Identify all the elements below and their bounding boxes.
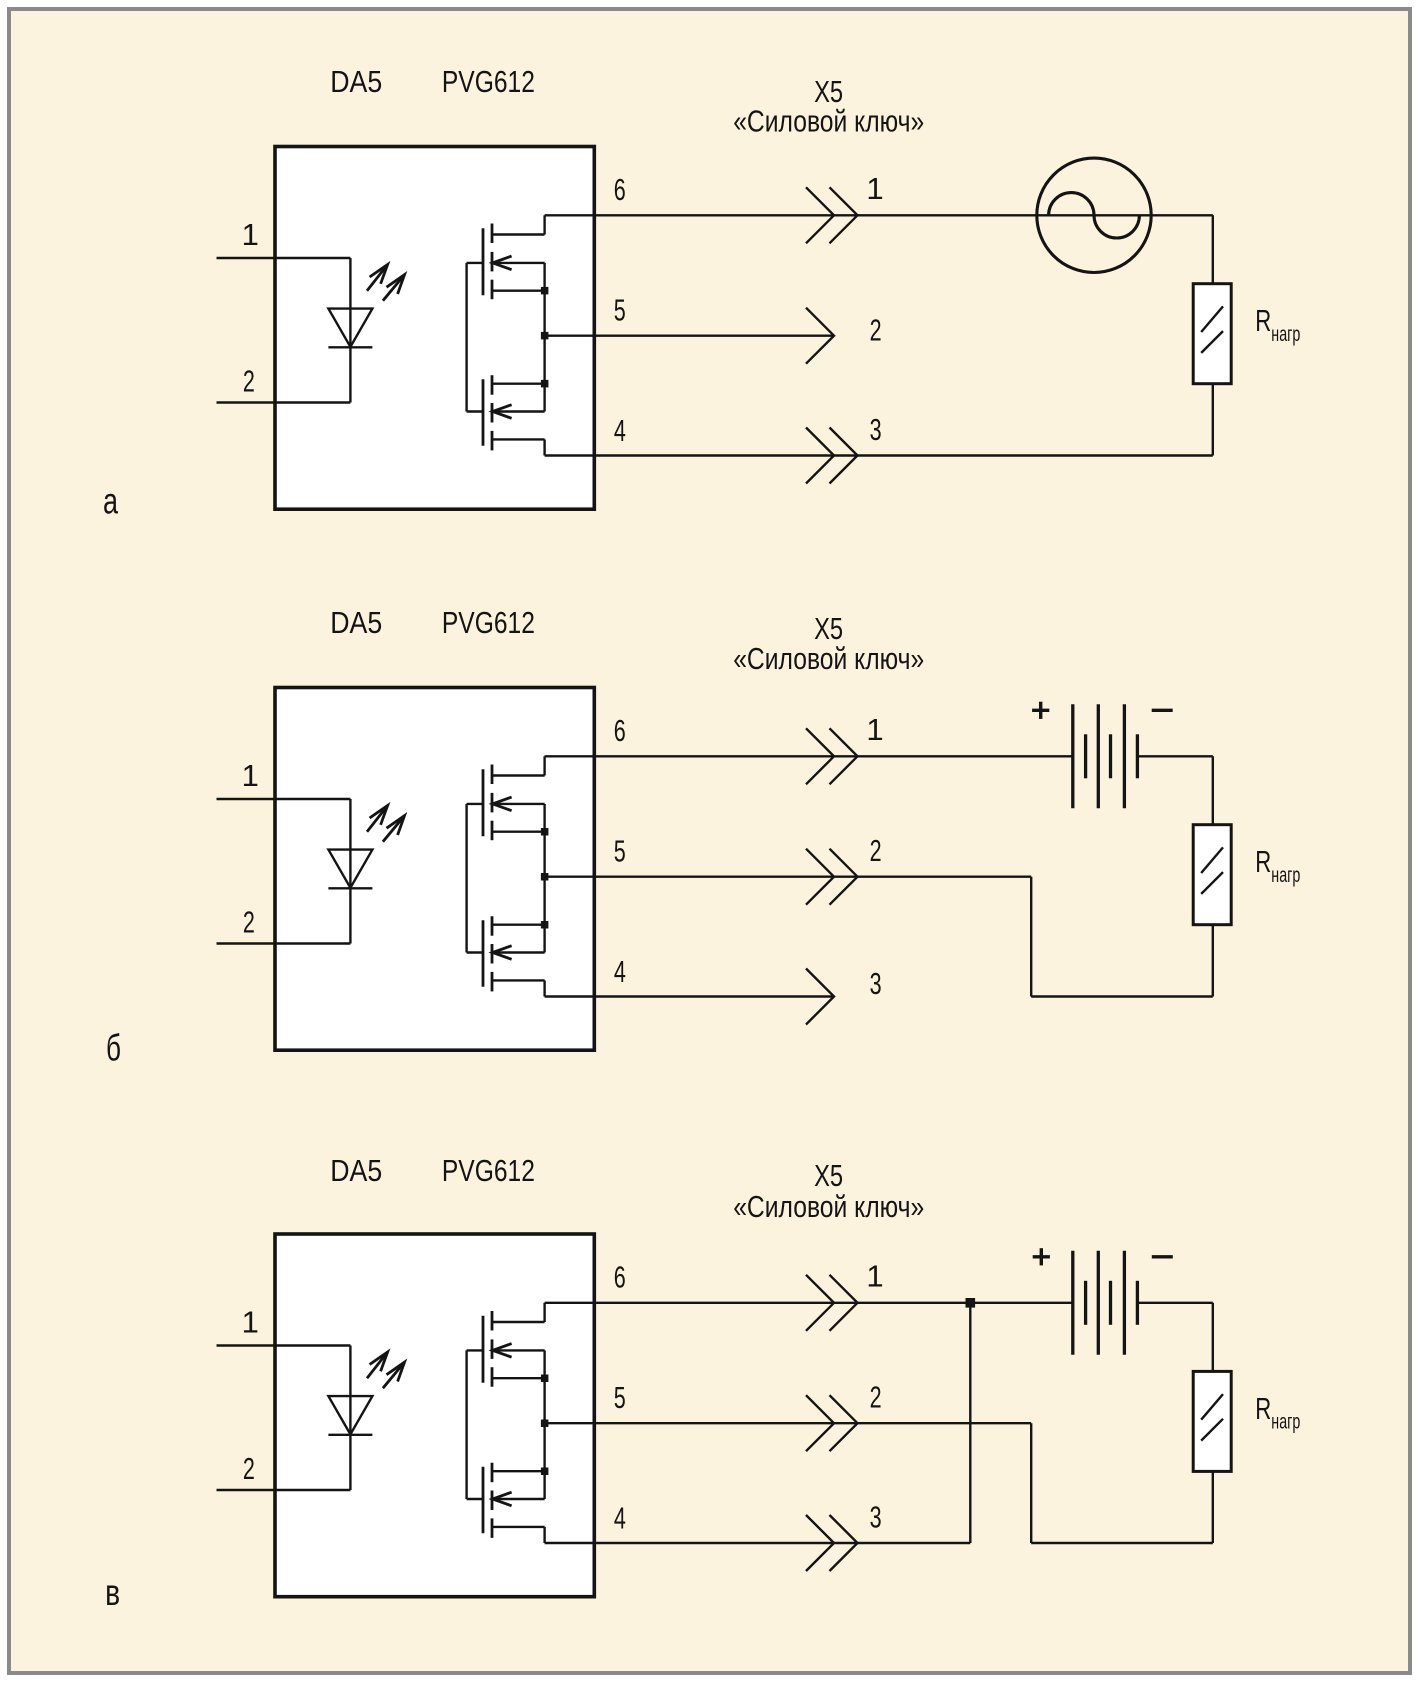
svg-text:«Силовой ключ»: «Силовой ключ» (733, 641, 924, 676)
svg-text:1: 1 (242, 1305, 259, 1340)
svg-text:PVG612: PVG612 (442, 1153, 535, 1188)
svg-text:6: 6 (614, 713, 626, 748)
svg-text:2: 2 (243, 905, 255, 940)
svg-text:1: 1 (242, 217, 259, 252)
svg-text:R: R (1255, 1391, 1271, 1426)
svg-text:X5: X5 (814, 1158, 843, 1193)
svg-text:R: R (1255, 844, 1271, 879)
svg-text:«Силовой ключ»: «Силовой ключ» (733, 104, 924, 139)
svg-text:2: 2 (870, 313, 882, 348)
svg-text:нагр: нагр (1271, 1410, 1300, 1434)
svg-text:6: 6 (614, 1260, 626, 1295)
svg-text:1: 1 (866, 171, 883, 206)
svg-text:PVG612: PVG612 (442, 64, 535, 99)
svg-text:3: 3 (870, 412, 882, 447)
svg-text:DA5: DA5 (330, 605, 382, 640)
svg-text:б: б (106, 1028, 121, 1069)
svg-text:DA5: DA5 (330, 64, 382, 99)
svg-text:3: 3 (870, 966, 882, 1001)
svg-text:в: в (105, 1572, 120, 1613)
svg-text:2: 2 (870, 833, 882, 868)
svg-text:4: 4 (614, 413, 626, 448)
svg-text:2: 2 (870, 1380, 882, 1415)
svg-text:1: 1 (866, 1259, 883, 1294)
svg-text:5: 5 (614, 834, 626, 869)
svg-text:R: R (1255, 303, 1271, 338)
svg-text:2: 2 (243, 364, 255, 399)
svg-text:«Силовой ключ»: «Силовой ключ» (733, 1189, 924, 1224)
svg-text:5: 5 (614, 1380, 626, 1415)
svg-text:6: 6 (614, 172, 626, 207)
svg-text:4: 4 (614, 954, 626, 989)
svg-text:2: 2 (243, 1451, 255, 1486)
svg-text:4: 4 (614, 1500, 626, 1535)
svg-text:1: 1 (866, 712, 883, 747)
svg-text:а: а (103, 481, 118, 522)
svg-text:3: 3 (870, 1500, 882, 1535)
svg-text:1: 1 (242, 758, 259, 793)
svg-text:нагр: нагр (1271, 322, 1300, 346)
svg-text:5: 5 (614, 293, 626, 328)
svg-text:DA5: DA5 (330, 1153, 382, 1188)
svg-text:нагр: нагр (1271, 863, 1300, 887)
svg-text:PVG612: PVG612 (442, 605, 535, 640)
